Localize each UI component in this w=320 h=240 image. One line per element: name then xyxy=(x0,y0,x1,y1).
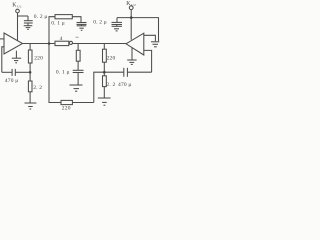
svg-text:U2: U2 xyxy=(131,3,136,7)
svg-text:220: 220 xyxy=(34,55,43,61)
svg-text:U1: U1 xyxy=(17,4,22,8)
svg-text:0. 1 μ: 0. 1 μ xyxy=(56,70,70,76)
svg-text:220: 220 xyxy=(62,106,71,110)
svg-text:0. 1 μ: 0. 1 μ xyxy=(51,21,65,27)
svg-text:470 μ: 470 μ xyxy=(118,82,132,88)
svg-text:2. 2: 2. 2 xyxy=(33,85,42,91)
svg-text:4: 4 xyxy=(60,36,63,42)
svg-text:470 μ: 470 μ xyxy=(5,78,19,84)
svg-text:0. 2 μ: 0. 2 μ xyxy=(93,19,107,25)
svg-text:2. 2: 2. 2 xyxy=(106,82,115,88)
svg-text:220: 220 xyxy=(107,55,116,61)
svg-text:0. 2 μ: 0. 2 μ xyxy=(34,14,48,20)
